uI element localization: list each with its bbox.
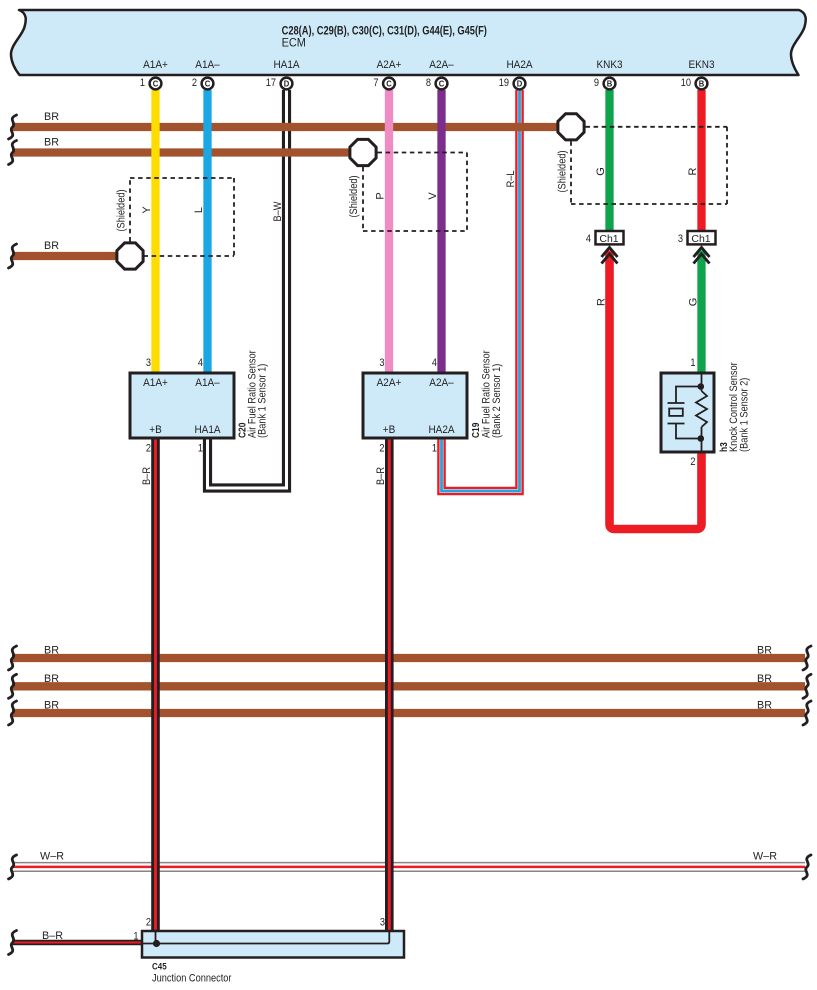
svg-text:4: 4 — [198, 357, 203, 369]
svg-text:A2A–: A2A– — [429, 59, 454, 72]
svg-text:3: 3 — [146, 357, 151, 369]
svg-text:HA2A: HA2A — [428, 424, 454, 437]
svg-text:HA1A: HA1A — [273, 59, 299, 72]
svg-text:HA2A: HA2A — [506, 59, 532, 72]
svg-text:9: 9 — [594, 77, 599, 89]
svg-text:W–R: W–R — [40, 850, 64, 862]
svg-text:C45: C45 — [152, 961, 167, 972]
svg-text:BR: BR — [44, 700, 59, 712]
svg-text:3: 3 — [380, 917, 385, 929]
svg-text:C: C — [205, 79, 211, 88]
svg-text:Y: Y — [141, 206, 153, 214]
svg-text:4: 4 — [586, 233, 591, 245]
svg-text:BR: BR — [44, 111, 59, 123]
svg-text:BR: BR — [44, 645, 59, 657]
svg-text:L: L — [193, 207, 205, 213]
svg-text:C: C — [439, 79, 445, 88]
svg-text:R: R — [596, 298, 608, 306]
svg-text:Junction Connector: Junction Connector — [152, 973, 232, 985]
svg-text:+B: +B — [149, 424, 162, 437]
svg-text:(Bank 1 Sensor 2): (Bank 1 Sensor 2) — [739, 378, 751, 452]
svg-text:Ch1: Ch1 — [599, 233, 618, 245]
svg-text:A1A+: A1A+ — [143, 59, 168, 72]
svg-text:G: G — [595, 167, 607, 176]
svg-text:BR: BR — [757, 645, 772, 657]
svg-text:B–R: B–R — [42, 930, 63, 942]
svg-text:1: 1 — [198, 443, 203, 455]
svg-text:B: B — [699, 79, 705, 88]
svg-text:A1A–: A1A– — [195, 377, 220, 390]
svg-text:B: B — [607, 79, 613, 88]
svg-text:A2A+: A2A+ — [377, 59, 402, 72]
svg-text:2: 2 — [379, 443, 384, 455]
svg-text:Ch1: Ch1 — [691, 233, 710, 245]
svg-text:1: 1 — [432, 443, 437, 455]
svg-text:2: 2 — [146, 917, 151, 929]
svg-text:BR: BR — [44, 136, 59, 148]
svg-text:(Bank 2 Sensor 1): (Bank 2 Sensor 1) — [491, 364, 503, 438]
svg-text:1: 1 — [140, 77, 145, 89]
svg-text:(Bank 1 Sensor 1): (Bank 1 Sensor 1) — [257, 364, 269, 438]
svg-text:A2A–: A2A– — [429, 377, 454, 390]
svg-text:17: 17 — [266, 77, 277, 89]
svg-text:BR: BR — [757, 700, 772, 712]
svg-text:BR: BR — [757, 673, 772, 685]
svg-text:P: P — [375, 192, 387, 199]
svg-text:HA1A: HA1A — [194, 424, 220, 437]
svg-text:C: C — [386, 79, 392, 88]
svg-text:2: 2 — [146, 443, 151, 455]
svg-text:10: 10 — [681, 77, 692, 89]
svg-text:BR: BR — [44, 673, 59, 685]
svg-text:A1A+: A1A+ — [143, 377, 168, 390]
svg-text:B–W: B–W — [272, 201, 284, 221]
svg-text:C28(A), C29(B), C30(C), C31(D): C28(A), C29(B), C30(C), C31(D), G44(E), … — [282, 26, 487, 38]
svg-text:(Shielded): (Shielded) — [348, 175, 360, 217]
svg-text:BR: BR — [44, 240, 59, 252]
svg-text:V: V — [427, 192, 439, 200]
svg-text:3: 3 — [379, 357, 384, 369]
svg-text:2: 2 — [192, 77, 197, 89]
svg-text:3: 3 — [678, 233, 683, 245]
svg-text:ECM: ECM — [282, 37, 306, 49]
svg-text:8: 8 — [426, 77, 431, 89]
svg-text:C19: C19 — [470, 423, 481, 438]
svg-text:W–R: W–R — [753, 850, 777, 862]
svg-text:G: G — [688, 298, 700, 307]
svg-text:A1A–: A1A– — [195, 59, 220, 72]
svg-text:D: D — [284, 79, 290, 88]
svg-text:7: 7 — [373, 77, 378, 89]
svg-text:B–R: B–R — [375, 467, 387, 485]
svg-text:+B: +B — [383, 424, 396, 437]
svg-text:R–L: R–L — [505, 170, 517, 187]
svg-text:KNK3: KNK3 — [596, 59, 622, 72]
svg-text:2: 2 — [690, 456, 695, 468]
svg-text:(Shielded): (Shielded) — [116, 189, 128, 231]
svg-text:4: 4 — [432, 357, 437, 369]
svg-text:R: R — [687, 167, 699, 175]
svg-text:(Shielded): (Shielded) — [557, 150, 569, 192]
svg-text:A2A+: A2A+ — [377, 377, 402, 390]
svg-text:19: 19 — [499, 77, 510, 89]
svg-text:1: 1 — [690, 357, 695, 369]
svg-text:D: D — [517, 79, 523, 88]
svg-text:C: C — [153, 79, 159, 88]
svg-text:1: 1 — [133, 931, 138, 943]
svg-text:EKN3: EKN3 — [688, 59, 714, 72]
svg-text:B–R: B–R — [141, 467, 153, 485]
